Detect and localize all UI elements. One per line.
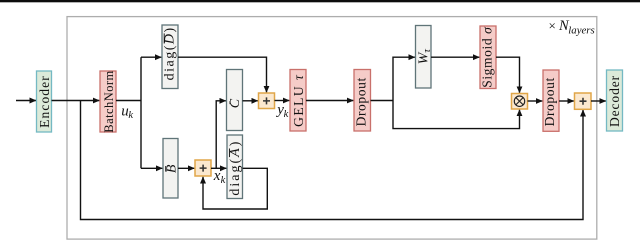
node y_k label xyxy=(275,102,288,120)
wire: input arrow xyxy=(16,100,36,102)
wire: Sigmoid across and down into multiplier top xyxy=(496,57,520,93)
outer layer frame xyxy=(67,17,597,240)
node u_k label xyxy=(121,103,133,121)
svg-text:diag(D): diag(D) xyxy=(163,26,178,80)
svg-text:k: k xyxy=(221,175,226,186)
wire: BatchNorm to split xyxy=(116,100,141,102)
top rule (page crop bar) xyxy=(0,0,640,2)
block Dropout (first) xyxy=(354,70,371,132)
label x N_layers xyxy=(549,18,595,36)
svg-text:Dropout: Dropout xyxy=(354,77,369,126)
wire: diag(D) across and down into adder xyxy=(178,57,267,92)
adder + (residual) xyxy=(575,93,592,109)
wire: split to B xyxy=(141,167,162,169)
wire: multiplier to Dropout xyxy=(528,100,543,102)
block Dropout (second) xyxy=(542,70,559,131)
svg-text:B: B xyxy=(164,164,179,173)
wire: gate split up to W xyxy=(393,57,415,100)
svg-text:Decoder: Decoder xyxy=(607,75,622,127)
wire: adder to Decoder xyxy=(591,100,606,102)
wire: W to Sigmoid xyxy=(431,56,479,58)
multiplier (gate) xyxy=(512,94,528,110)
adder + (state) xyxy=(195,160,211,176)
svg-text:k: k xyxy=(284,109,289,120)
wire: Encoder to BatchNorm xyxy=(52,100,100,102)
wire: Dropout to residual adder xyxy=(559,100,574,102)
wire: adder to GELU xyxy=(275,100,290,102)
svg-text:Dropout: Dropout xyxy=(542,77,557,126)
block diag(A) xyxy=(227,135,243,199)
wire: diag(A) feedback loop xyxy=(203,168,267,209)
wire: Dropout to gate split xyxy=(371,100,394,102)
svg-text:Encoder: Encoder xyxy=(37,75,52,128)
wire: split to diag(D) xyxy=(141,56,161,58)
node x_k label xyxy=(213,168,226,186)
svg-text:Sigmoid σ: Sigmoid σ xyxy=(480,26,495,88)
wire: GELU to Dropout xyxy=(306,100,353,102)
svg-text:×: × xyxy=(549,18,556,33)
wire: B to adder xyxy=(178,167,194,169)
block BatchNorm xyxy=(100,70,116,132)
block Encoder xyxy=(37,71,52,132)
svg-text:k: k xyxy=(128,110,133,121)
wire: adder to diag(A) xyxy=(211,167,226,169)
adder + (y_k) xyxy=(259,93,275,109)
svg-text:diag(A): diag(A) xyxy=(228,140,243,196)
block diag(D) xyxy=(162,25,178,89)
block GELU xyxy=(290,70,306,132)
wire: gate lower path into multiplier bottom xyxy=(393,101,520,129)
block W xyxy=(416,26,433,89)
wire: split vertical xyxy=(140,57,142,168)
block Decoder xyxy=(607,70,623,131)
wire: C to adder xyxy=(243,100,258,102)
svg-text:x: x xyxy=(213,168,221,184)
svg-text:BatchNorm: BatchNorm xyxy=(102,70,116,132)
wire: x_k up to C xyxy=(216,101,226,169)
block Sigmoid xyxy=(480,26,496,89)
svg-text:layers: layers xyxy=(568,25,594,37)
svg-text:GELU τ: GELU τ xyxy=(291,74,306,127)
block B xyxy=(163,139,179,199)
wire: residual skip (down, across bottom, up into + ) xyxy=(81,101,584,220)
block C xyxy=(227,70,243,131)
